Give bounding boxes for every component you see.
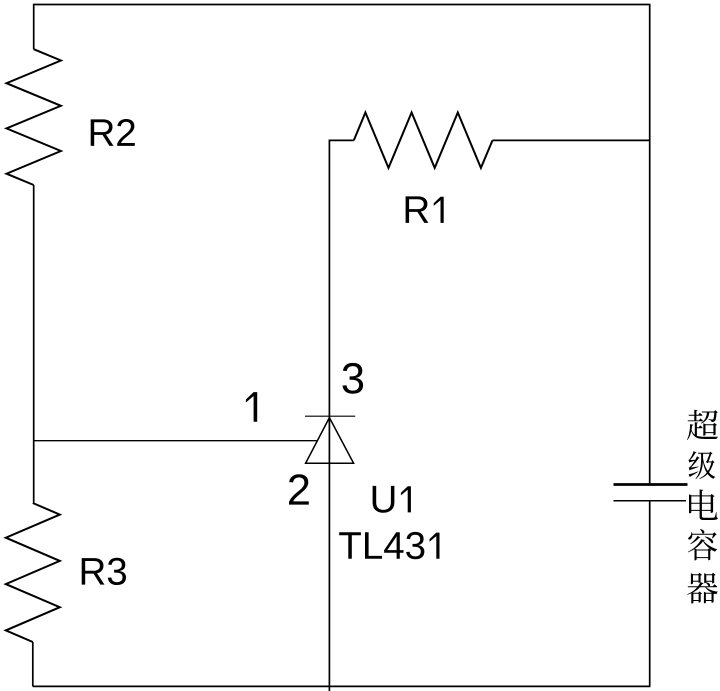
capacitor plate top (614, 483, 688, 486)
label 器 (supercapacitor text char 5) (687, 573, 718, 604)
wire right rail upper (649, 4, 651, 484)
pin 3 label (343, 363, 364, 394)
label R3 (82, 558, 126, 585)
label R1 (406, 196, 444, 223)
label TL431 (339, 532, 439, 559)
wire U1 cathode vertical (328, 140, 330, 691)
pin 1 label (246, 392, 257, 422)
wire R1 right stub (493, 139, 651, 141)
label U1 (373, 486, 411, 513)
U1 TL431 triangle (306, 418, 354, 464)
label 超 (supercapacitor text char 1) (687, 410, 718, 440)
wire left rail top (33, 4, 35, 50)
wire bottom rail (33, 685, 651, 687)
wire left rail bottom (32, 642, 34, 686)
wire R1 left stub (329, 139, 353, 141)
resistor R2 (7, 49, 61, 185)
label R2 (91, 119, 135, 146)
resistor R1 (354, 113, 493, 168)
U1 TL431 cathode bar (305, 415, 355, 417)
wire left rail middle (33, 185, 35, 503)
wire right rail lower (649, 502, 651, 686)
wire top rail (34, 4, 650, 6)
pin 2 label (289, 474, 309, 504)
wire reference pin 1 (34, 440, 317, 442)
label 电 (supercapacitor text char 3) (689, 490, 718, 521)
capacitor plate bottom (614, 500, 687, 502)
label 级 (supercapacitor text char 2) (689, 451, 716, 479)
label 容 (supercapacitor text char 4) (688, 529, 717, 560)
resistor R3 (6, 503, 60, 642)
